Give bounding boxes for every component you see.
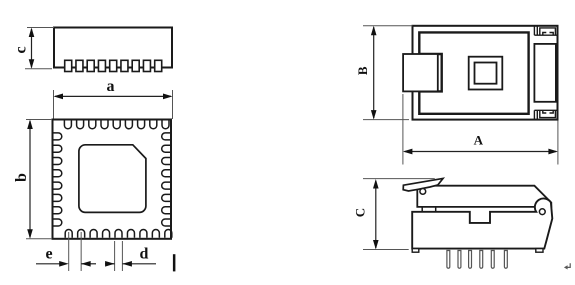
svg-text:d: d — [140, 246, 149, 263]
svg-text:A: A — [474, 133, 484, 148]
svg-text:c: c — [13, 46, 30, 53]
svg-text:e: e — [45, 246, 52, 263]
svg-text:b: b — [13, 173, 30, 182]
svg-text:a: a — [107, 78, 115, 95]
svg-text:C: C — [353, 208, 368, 217]
svg-text:B: B — [355, 66, 370, 75]
